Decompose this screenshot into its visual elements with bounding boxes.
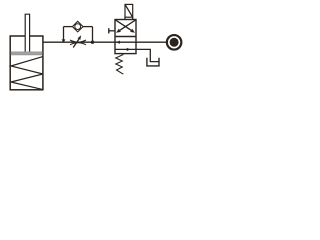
valve V2 box divider [115, 36, 136, 38]
flow control: bypass top wire [64, 26, 73, 28]
valve V2 top box crossed path 2 [116, 20, 135, 33]
source P1 inner dot [170, 38, 179, 47]
valve V2 blocked pilot port [109, 28, 115, 33]
cylinder piston rod [25, 14, 29, 52]
cylinder C1 body [10, 36, 43, 90]
throttle V1 upper arc [70, 40, 86, 42]
valve V2 body [115, 20, 136, 54]
flow control: bypass branch right wire [92, 27, 94, 43]
source P1 outer ring [167, 35, 182, 50]
junction dot (right) [91, 41, 94, 44]
junction arrow into line (left) [62, 39, 66, 42]
wire valve to source [136, 41, 167, 43]
wire valve exhaust port [136, 49, 159, 61]
valve V2 return spring [116, 54, 124, 74]
flow control: bypass top wire right [83, 26, 93, 28]
wire cylinder port to flow control [43, 41, 64, 43]
valve V2 bottom box flow path arrow right [115, 48, 136, 51]
wire flow control to valve [93, 41, 116, 43]
cylinder piston [11, 52, 42, 55]
tank T1 [147, 58, 159, 66]
check valve V1 ball [75, 24, 81, 30]
valve V2 top box crossed path 1 [116, 20, 135, 33]
throttle V1 lower arc [70, 43, 86, 45]
valve V2 bottom box flow path arrow left [115, 41, 136, 44]
flow control: bypass branch left wire [63, 27, 65, 43]
check valve V1 seat diamond [72, 21, 83, 32]
valve V2 manual actuator [125, 4, 133, 19]
cylinder return spring [11, 57, 43, 90]
throttle V1 adjust arrow [73, 35, 81, 47]
wire through flow control [64, 41, 93, 43]
